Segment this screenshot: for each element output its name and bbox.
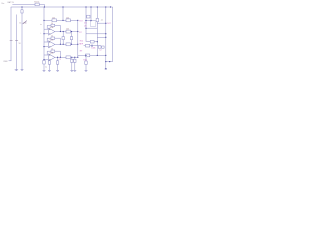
wire left ground leg [15,15,17,70]
svg-text:10k: 10k [66,29,69,31]
svg-text:R9: R9 [80,50,82,52]
resistor R10 out row2 [66,43,71,46]
wire vb2 ground leg [48,61,50,71]
op-amp U3 [49,54,55,61]
wire op3 output row [55,56,78,58]
wire v105.8 [105,7,107,69]
resistor R20 rowG [85,54,89,57]
svg-text:25k: 25k [23,23,27,25]
svg-text:REF: REF [79,43,84,45]
ground G9 [105,68,107,70]
svg-text:R10: R10 [83,59,86,61]
wire left source drop [10,7,12,61]
wire op3 input stubs [44,54,48,56]
ground G8 [85,69,88,71]
wire rowD right [86,33,106,35]
svg-text:U1B: U1B [50,40,54,42]
wire v91 [90,7,92,21]
svg-text:R12: R12 [80,40,83,42]
resistor R21 v86 lower [85,61,87,64]
resistor R17 on v97 [96,18,98,21]
resistor R3 row1 left [52,19,57,22]
junction dots [21,6,111,69]
wire vb3 ground leg [57,57,59,70]
svg-text:10k: 10k [66,17,69,19]
wire op2 feedback [46,38,48,42]
resistor R18 rowE [90,40,94,43]
wire op2 input stubs [44,41,48,43]
wire v71.8 ground leg [71,57,73,70]
resistor R19 rowF [85,44,89,47]
resistor R13 bottom bus leg [43,60,45,64]
resistor R14 bottom leg 2 [48,61,50,64]
ground G7 [73,69,76,71]
wire v86 [85,7,87,42]
svg-text:1k: 1k [51,49,53,51]
wire rowH out tap [106,61,113,63]
ground symbols [15,69,107,71]
wire hang R left [62,32,64,45]
svg-text:100k: 100k [91,48,95,50]
wire rowC right [86,27,97,29]
resistor R11 feedback op3 [51,50,55,52]
svg-text:U4: U4 [84,26,86,28]
svg-text:in: in [40,24,41,26]
wire op1 feedback [46,25,48,29]
resistor R8 hang right [70,37,72,40]
resistor R24 right small [98,46,101,48]
IC box right light [90,21,96,27]
op-amp input polarity marks [49,29,50,60]
wire middle bus x44 [43,7,45,61]
ground G2 [21,69,24,71]
wire row37 right [97,36,106,38]
battery tick marks left [10,39,18,41]
svg-text:+In: +In [101,20,104,22]
wire v112.6 right edge [112,7,114,62]
wire op1 output row [55,31,78,33]
svg-text:REF: REF [4,61,9,63]
wire rowG right [78,54,106,56]
potentiometer arrow on left bus [23,21,27,24]
wire left bus x22 [21,7,23,69]
resistor R23 v74.8 [74,59,76,62]
text labels [1,1,103,69]
wire left terminal tick [9,60,12,62]
ground G4 [48,69,51,71]
svg-text:1k: 1k [19,22,21,24]
op-amp U1 [49,28,55,35]
wire op3 feedback [46,51,48,55]
wire row1 [44,19,78,21]
wire op2 output row [55,43,78,45]
resistor R16 bridge right [87,15,90,18]
wire hang R right [71,32,73,45]
ground G5 [56,69,59,71]
svg-text:Vin: Vin [1,3,4,5]
wire rowA right [85,20,97,22]
wire v74.8 ground leg [74,57,76,70]
svg-text:+: + [40,32,41,34]
ground G3 [43,69,46,71]
svg-text:C2: C2 [99,50,101,52]
wire rowB right [97,22,106,24]
svg-text:C1: C1 [59,59,61,61]
wire bus A top [12,3,44,5]
wire v86 lower ground leg [85,55,87,70]
wire v77.8 [77,20,79,57]
wire rowE right [86,41,97,43]
resistor R2 left bus [21,10,23,13]
resistor R9 feedback op2 [51,37,55,39]
svg-text:BAT 5V: BAT 5V [8,1,15,4]
resistor R22 v71.8 [71,59,73,62]
op-amp U2 [49,41,55,48]
resistor R7 hang left [62,37,64,40]
svg-text:1k: 1k [51,23,53,25]
svg-text:OUT: OUT [107,23,112,25]
resistor R5 feedback op1 [51,24,55,26]
svg-text:TLV: TLV [79,20,83,22]
capacitor C4 plates right cluster [91,45,92,47]
resistor R4 row1 right [66,19,70,22]
resistor R12 out row3 [66,56,71,59]
svg-text:1u: 1u [45,67,47,69]
resistor R1 top bus [35,3,39,6]
svg-text:5V: 5V [19,43,22,45]
resistor R6 out row1 [66,30,71,33]
svg-text:1k: 1k [51,36,53,38]
wire bus x44 lower ground leg [43,61,45,71]
wire v97.3 [96,7,98,55]
capacitor C3 right small [102,46,105,48]
wire bus B top rail [11,6,113,8]
wire op1 input stubs [44,28,48,30]
wire v63 drop [62,7,64,20]
svg-text:R1 1k: R1 1k [34,2,39,4]
ground G6 [70,69,73,71]
svg-text:271: 271 [84,22,87,24]
svg-text:R7: R7 [79,32,81,34]
wire corner busA to busB [43,4,45,7]
svg-text:10k: 10k [52,17,55,19]
resistor R15 bottom leg 3 [56,61,58,64]
ground G1 [15,69,18,71]
wire rowF right [84,45,101,47]
